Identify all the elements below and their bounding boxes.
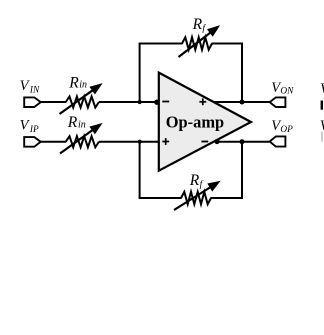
resistor Rin bottom arrow	[60, 124, 102, 154]
resistor Rin top arrow	[60, 84, 102, 114]
svg-text:in: in	[79, 80, 87, 91]
output port terminal VON	[270, 97, 286, 107]
svg-text:R: R	[189, 172, 200, 189]
svg-text:IP: IP	[29, 125, 39, 135]
op-amp U1 triangle	[159, 73, 251, 171]
top feedback loop wire (left vertical)	[139, 44, 141, 103]
wire VIN to Rin	[41, 101, 66, 103]
top feedback wire (horizontal right of Rf)	[212, 43, 244, 45]
bottom feedback wire (horizontal right of Rf)	[211, 197, 244, 199]
input port terminal VIN	[24, 97, 41, 107]
op-amp output pin mark (-) bottom right	[202, 141, 209, 143]
wire VIP to Rin	[41, 141, 66, 143]
output port terminal VOP	[270, 136, 286, 146]
bottom feedback wire (horizontal left of Rf)	[139, 197, 182, 199]
svg-text:Op-amp: Op-amp	[166, 112, 225, 131]
wire Rin to opamp inverting input	[99, 101, 160, 103]
junction node at opamp inverting input	[154, 100, 159, 105]
resistor Rf top arrow	[179, 26, 220, 57]
wire opamp output bottom to VOP	[217, 141, 270, 143]
junction node at VIP/Rf feedback tap	[138, 140, 142, 144]
svg-text:V: V	[320, 118, 324, 134]
svg-text:V: V	[320, 81, 324, 97]
svg-text:R: R	[67, 114, 78, 131]
bottom feedback loop wire (right vertical)	[241, 142, 243, 199]
op-amp inverting input pin mark (-)	[162, 101, 169, 103]
top feedback wire (horizontal left of Rf)	[139, 43, 183, 45]
svg-text:R: R	[192, 16, 203, 33]
op-amp non-inverting input pin mark (+)	[162, 138, 169, 145]
resistor Rin (bottom, variable)	[66, 136, 99, 147]
svg-text:R: R	[68, 74, 79, 91]
resistor Rf bottom arrow	[174, 182, 220, 211]
svg-text:in: in	[78, 119, 86, 130]
junction node at VIN/Rf feedback tap	[138, 100, 142, 104]
svg-text:ON: ON	[280, 87, 294, 97]
resistor Rf (top, variable)	[182, 37, 212, 49]
wire Rin to opamp non-inverting input	[99, 141, 160, 143]
junction node top output / feedback	[240, 100, 245, 105]
svg-text:IN: IN	[29, 85, 40, 95]
top feedback loop wire (right vertical)	[241, 43, 243, 103]
partial terminal fragment (next figure, bottom faint)	[321, 132, 322, 142]
resistor Rf (bottom, variable)	[181, 192, 211, 204]
wire opamp output top to VON	[213, 101, 270, 103]
svg-text:OP: OP	[280, 125, 293, 135]
bottom feedback loop wire (left vertical)	[139, 142, 141, 198]
partial terminal fragment (next figure, top)	[321, 101, 323, 110]
input port terminal VIP	[24, 137, 41, 147]
resistor Rin (top, variable)	[66, 97, 99, 108]
junction node at opamp bottom output edge	[214, 139, 219, 144]
op-amp output pin mark (+) top right	[199, 98, 206, 105]
junction node bottom output / feedback	[240, 139, 245, 144]
